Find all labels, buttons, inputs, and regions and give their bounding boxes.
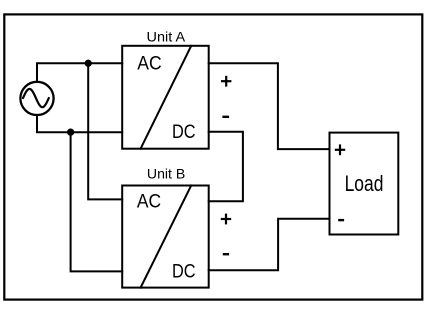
- svg-text:DC: DC: [172, 122, 196, 143]
- svg-text:AC: AC: [137, 54, 161, 75]
- svg-text:Unit B: Unit B: [147, 165, 185, 181]
- svg-text:Load: Load: [345, 171, 384, 196]
- svg-text:DC: DC: [172, 261, 196, 282]
- svg-text:Unit A: Unit A: [147, 29, 186, 45]
- svg-text:AC: AC: [137, 192, 161, 213]
